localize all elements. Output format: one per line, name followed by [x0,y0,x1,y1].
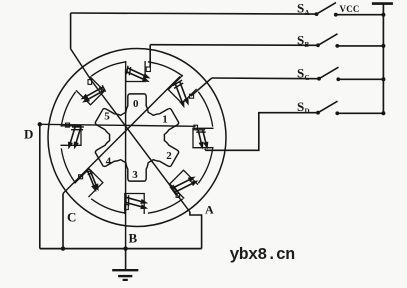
terminal SW coil [79,175,83,179]
wire S_B drop [149,45,151,67]
wire S_A left drop [70,13,72,49]
junction node D [38,122,42,126]
coil SW (phase C) [87,171,99,193]
switch S_D [316,101,383,115]
watermark ybx8.cn [230,245,295,264]
svg-text:S: S [297,32,304,47]
label rotor tooth 0 [133,98,139,110]
wire phase C return [62,194,64,249]
wire horizontal phase-D axis [40,124,196,126]
svg-text:2: 2 [166,150,172,162]
VCC rail top bar [372,2,393,5]
junction VCC rail 4 [381,111,385,115]
wire phase A return [190,212,202,249]
coil E (phase D) [196,130,209,150]
label phase D [24,127,33,142]
svg-text:ybx8.cn: ybx8.cn [230,245,295,264]
svg-text:S: S [297,1,304,16]
wire vertical phase-B axis [125,69,127,249]
svg-text:VCC: VCC [340,4,360,14]
label rotor tooth 2 [166,150,172,162]
rotor (6-tooth gear) [95,94,178,181]
junction node C-bus [61,246,65,250]
svg-text:A: A [205,203,214,217]
wire S_B row [150,44,318,47]
terminal N coil [146,67,150,72]
svg-text:1: 1 [162,113,168,125]
switch S_A [315,3,384,17]
switch S_B [316,34,383,48]
wire common bus bottom [40,248,202,250]
svg-text:B: B [305,41,310,49]
terminal SE coil [176,193,180,197]
junction VCC rail 3 [381,77,385,81]
coil S (phase B bottom) [126,194,148,209]
wire diagonal phase-C axis (NE-SW) [63,77,180,194]
stator outer circle [48,49,226,227]
svg-text:3: 3 [132,169,138,181]
coil NE (phase C) [173,80,189,108]
coil W (phase D) [68,127,84,149]
ground bar 3 [123,279,128,281]
wire S_A row [71,13,317,14]
terminal NE coil [190,94,194,98]
label phase C [67,210,76,225]
wire diagonal phase-A axis (NW-SE) [71,49,190,212]
label rotor tooth 5 [104,110,110,122]
label S_B [297,32,310,49]
terminal NW coil [88,80,92,85]
coil N (phase B top) [127,66,151,82]
terminal S coil [125,205,129,210]
wire S_C stub to NE coil [191,78,212,96]
label rotor tooth 4 [106,155,112,167]
switch S_C [317,67,383,81]
coil NW (phase A) [81,85,106,102]
coil SE (phase A) [170,177,198,195]
svg-text:D: D [305,108,310,116]
terminal W coil [66,123,70,127]
svg-text:S: S [297,66,304,81]
label S_C [297,66,310,83]
svg-text:S: S [297,99,304,114]
wire S_D row [205,113,318,151]
label rotor tooth 3 [132,169,138,181]
svg-text:4: 4 [106,155,112,167]
wire S_C row [212,77,319,80]
label phase A [205,203,214,217]
wire phase D return [39,124,41,248]
label S_D [297,99,310,116]
svg-text:C: C [67,210,76,225]
label VCC [340,4,360,14]
svg-text:0: 0 [133,98,139,110]
label phase B [129,231,138,246]
ground bar 2 [118,275,132,277]
junction node B-bus [123,246,127,250]
VCC rail vertical [382,4,384,114]
terminal E coil [194,125,198,130]
svg-text:B: B [129,231,138,246]
ground bar 1 [112,269,138,271]
svg-text:C: C [305,74,310,82]
svg-text:A: A [305,9,310,17]
junction VCC rail 1 [381,13,385,17]
label S_A [297,1,310,18]
ground stem [125,249,127,270]
label rotor tooth 1 [162,113,168,125]
stator inner bore arcs [61,62,212,213]
junction VCC rail 2 [381,44,385,48]
svg-text:5: 5 [104,110,110,122]
svg-text:D: D [24,127,33,142]
stator poles (8) [61,61,214,214]
